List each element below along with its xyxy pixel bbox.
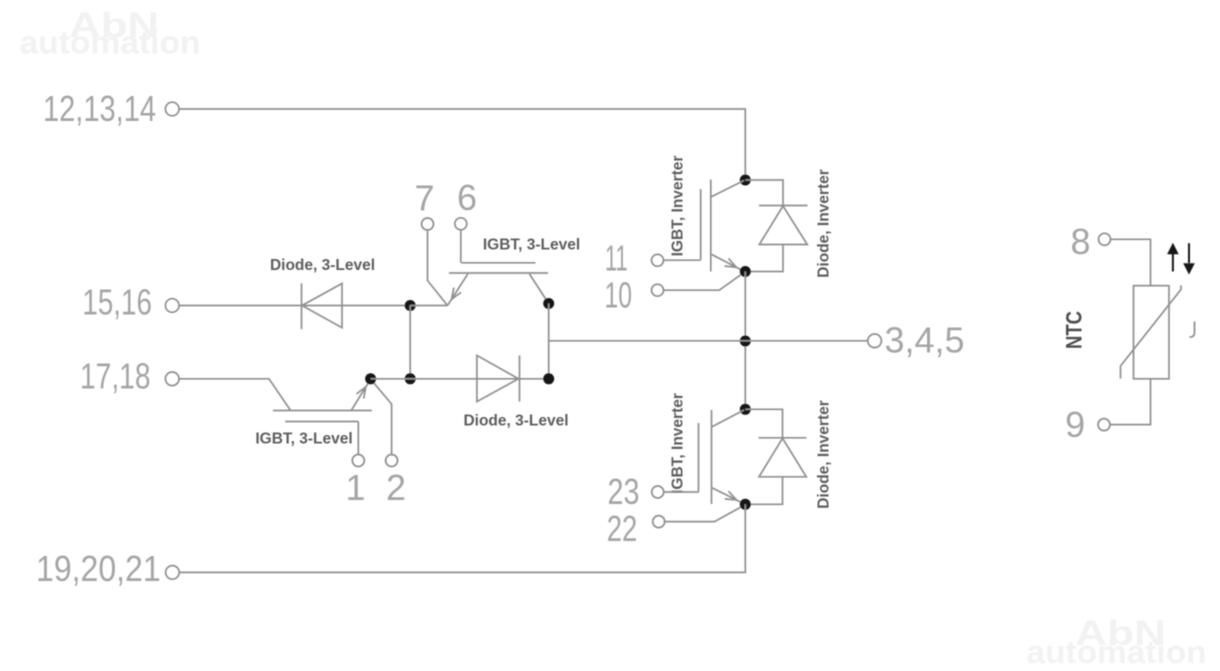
node: emitter dot of bottom 3-level IGBT (rail B) [365,373,376,384]
IGBT, 3-Level (bottom) [273,379,372,421]
svg-text:19,20,21: 19,20,21 [36,548,161,589]
node: rail B right junction dot [543,373,554,384]
pin 9 (NTC) [1098,379,1151,431]
svg-text:Diode, Inverter: Diode, Inverter [816,400,833,509]
wire: terminal 15,16 to clamp diode (rail A) [179,305,411,307]
pin 22 (aux emitter, bottom inverter) [653,506,744,528]
svg-text:23: 23 [608,471,640,512]
wire: phase rail between inverter IGBTs [744,272,746,410]
thermistor theta mark [1190,322,1195,338]
wire: rail A to emitter of top 3-level IGBT [410,305,447,307]
diode, Inverter (bottom freewheel) [745,409,806,504]
pin 1 (gate, bottom 3-level IGBT) [352,422,364,467]
pin 7 (aux emitter, top 3-level IGBT) [422,218,448,306]
svg-text:IGBT, 3-Level: IGBT, 3-Level [483,237,580,254]
wire: vertical connector collector dot to rail B [548,304,550,379]
IGBT, Inverter (top) [701,180,744,272]
pin 11 (gate, top inverter) [652,254,701,266]
terminal 17,18 [80,356,179,397]
svg-text:22: 22 [607,508,638,549]
pin 2 (aux emitter, bottom 3-level IGBT) [371,380,398,467]
wire: terminal 17,18 to collector of bottom 3-level IGBT [179,379,291,411]
svg-text:11: 11 [605,238,628,279]
node: DC+ junction dot [740,175,751,186]
diode, Inverter (top freewheel) [745,180,807,272]
pin 23 (gate, bottom inverter) [652,486,699,498]
svg-text:9: 9 [1065,404,1085,445]
svg-text:automation: automation [20,25,201,61]
thermistor NTC body [1121,285,1182,379]
svg-text:7: 7 [414,178,434,219]
node: collector dot (bottom inverter) [740,404,751,415]
svg-text:IGBT, Inverter: IGBT, Inverter [669,393,686,494]
IGBT, 3-Level (top) [448,263,549,306]
diode, 3-Level (upper clamp, pointing left) [302,283,343,329]
node: phase midpoint emitter dot (top inverter) [740,266,751,277]
wire: vertical connector rail A to rail B [409,306,411,379]
node: AC output junction dot [740,336,751,347]
node: rail A junction dot [405,300,416,311]
wire: AC output line to terminal 3,4,5 [549,340,869,342]
svg-text:IGBT, Inverter: IGBT, Inverter [669,156,686,257]
svg-text:NTC: NTC [1062,311,1087,349]
svg-text:10: 10 [605,275,633,316]
arrow up (NTC bidirectional) [1167,243,1179,272]
pin 10 (aux emitter, top inverter) [652,273,744,296]
terminal 15,16 [82,282,179,323]
svg-text:12,13,14: 12,13,14 [43,88,156,129]
svg-text:6: 6 [457,177,477,218]
svg-text:17,18: 17,18 [80,356,151,397]
pin 8 (NTC) [1099,233,1151,285]
svg-text:IGBT, 3-Level: IGBT, 3-Level [255,431,352,448]
terminal 3,4,5 (AC out) [868,320,965,361]
svg-text:Diode, 3-Level: Diode, 3-Level [463,413,568,430]
node: rail B junction dot [405,373,416,384]
wire: emitter of bottom inverter to DC- rail [179,504,746,572]
svg-text:Diode, Inverter: Diode, Inverter [816,169,833,278]
node: collector dot of top 3-level IGBT [543,298,554,309]
svg-text:3,4,5: 3,4,5 [885,320,965,361]
svg-text:8: 8 [1070,221,1090,262]
svg-text:15,16: 15,16 [82,282,151,323]
arrow down (NTC bidirectional) [1183,243,1195,274]
watermark AbN automation top-left [20,6,201,61]
pin 6 (gate, top 3-level IGBT) [455,218,467,263]
wire: rail B [371,378,549,380]
terminal 12,13,14 (DC+) [43,88,179,129]
svg-text:automation: automation [1027,634,1207,670]
node: emitter dot (bottom inverter) [740,499,751,510]
terminal 19,20,21 (DC-) [36,548,179,589]
svg-text:2: 2 [386,467,406,508]
svg-text:Diode, 3-Level: Diode, 3-Level [270,257,375,274]
svg-text:1: 1 [345,467,365,508]
watermark AbN automation bottom-right [1027,614,1207,670]
IGBT, Inverter (bottom) [699,410,745,504]
wire: terminal 12,13,14 to collector of top inverter IGBT [179,109,746,175]
diode, 3-Level (lower, pointing right) [477,355,520,401]
